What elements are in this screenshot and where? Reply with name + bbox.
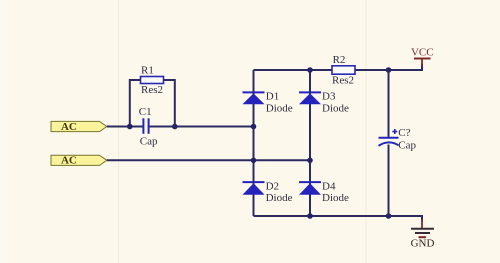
node junction AC1/R1 left <box>127 124 133 130</box>
wire R2 to VCC <box>355 64 422 70</box>
wire cap branch upper <box>388 70 390 137</box>
capacitor C? <box>379 127 417 151</box>
diode D3 <box>299 90 349 114</box>
svg-text:AC: AC <box>61 155 77 167</box>
svg-text:AC: AC <box>61 121 77 133</box>
ground GND <box>411 219 435 250</box>
port AC1 <box>51 121 107 133</box>
svg-text:Res2: Res2 <box>141 84 163 96</box>
node AC2-right column <box>307 158 313 164</box>
node bottom rail right column <box>307 213 313 219</box>
svg-text:Res2: Res2 <box>332 74 354 86</box>
node top rail cap branch <box>386 67 392 73</box>
wire top rail bridge to R2 <box>254 69 333 71</box>
diode D1 <box>243 90 293 114</box>
svg-text:Diode: Diode <box>322 102 349 114</box>
svg-text:Diode: Diode <box>322 192 349 204</box>
svg-text:C1: C1 <box>139 106 152 118</box>
node AC2-left column <box>251 158 257 164</box>
power VCC <box>411 46 434 66</box>
svg-text:C?: C? <box>398 127 410 139</box>
svg-text:D1: D1 <box>266 90 279 102</box>
svg-text:Diode: Diode <box>266 192 293 204</box>
wire bridge right column <box>309 70 311 216</box>
diode D2 <box>243 180 293 204</box>
svg-text:D4: D4 <box>322 180 336 192</box>
port AC2 <box>51 155 107 167</box>
wire AC1 to bridge left column <box>107 126 254 128</box>
svg-text:D3: D3 <box>322 90 336 102</box>
svg-text:Cap: Cap <box>398 139 416 151</box>
node bottom rail cap branch <box>386 213 392 219</box>
node top rail right column <box>307 67 313 73</box>
wire bottom rail <box>254 216 423 221</box>
wire R1 branch left <box>130 80 141 127</box>
svg-text:Diode: Diode <box>266 102 293 114</box>
node junction AC1/R1 right <box>172 124 178 130</box>
node AC1-left column <box>251 124 257 130</box>
capacitor C1 <box>139 106 158 147</box>
svg-text:VCC: VCC <box>411 46 434 58</box>
wire AC2 to bridge right column <box>107 159 310 161</box>
wire cap branch lower <box>388 145 390 217</box>
svg-text:Cap: Cap <box>140 135 158 147</box>
wire R1 branch right <box>164 80 175 127</box>
wire bridge left column <box>253 70 255 216</box>
diode D4 <box>299 180 349 204</box>
resistor R1 <box>141 65 164 96</box>
svg-text:R1: R1 <box>141 65 154 77</box>
resistor R2 <box>332 54 355 87</box>
svg-text:D2: D2 <box>266 180 279 192</box>
svg-text:GND: GND <box>411 238 435 250</box>
svg-text:R2: R2 <box>333 54 346 66</box>
